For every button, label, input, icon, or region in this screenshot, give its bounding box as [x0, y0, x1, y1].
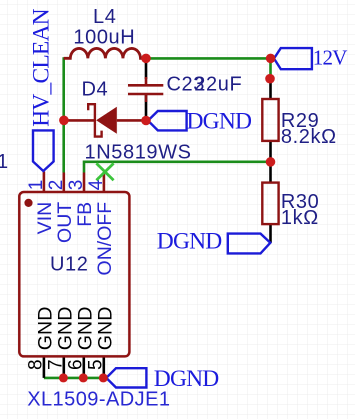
svg-text:XL1509-ADJE1: XL1509-ADJE1 — [27, 389, 170, 411]
svg-text:22uF: 22uF — [194, 74, 242, 96]
svg-text:OUT: OUT — [54, 202, 76, 243]
svg-text:5: 5 — [86, 359, 107, 370]
svg-text:8.2kΩ: 8.2kΩ — [281, 126, 337, 148]
svg-text:ON/OFF: ON/OFF — [94, 202, 116, 276]
svg-text:GND: GND — [55, 307, 77, 351]
svg-text:3: 3 — [66, 180, 87, 191]
svg-text:4: 4 — [86, 179, 107, 190]
svg-text:1: 1 — [26, 180, 47, 191]
svg-text:L4: L4 — [93, 6, 116, 28]
svg-text:DGND: DGND — [154, 366, 220, 392]
svg-text:GND: GND — [35, 307, 57, 351]
svg-text:DGND: DGND — [157, 228, 223, 254]
svg-text:HV_CLEAN: HV_CLEAN — [28, 8, 54, 126]
svg-text:7: 7 — [46, 359, 67, 370]
svg-text:1kΩ: 1kΩ — [281, 207, 319, 229]
svg-text:GND: GND — [95, 307, 117, 351]
svg-text:8: 8 — [26, 359, 47, 370]
svg-text:DGND: DGND — [187, 108, 253, 134]
svg-text:U12: U12 — [50, 253, 89, 275]
svg-text:D4: D4 — [82, 79, 109, 101]
svg-text:2: 2 — [46, 180, 67, 191]
svg-text:VIN: VIN — [34, 202, 56, 235]
svg-text:100uH: 100uH — [73, 26, 135, 48]
svg-text:1N5819WS: 1N5819WS — [85, 141, 192, 163]
svg-text:GND: GND — [75, 307, 97, 351]
svg-text:FB: FB — [74, 202, 96, 227]
svg-text:12V: 12V — [313, 45, 347, 69]
svg-text:1: 1 — [0, 151, 8, 173]
svg-text:6: 6 — [66, 359, 87, 370]
